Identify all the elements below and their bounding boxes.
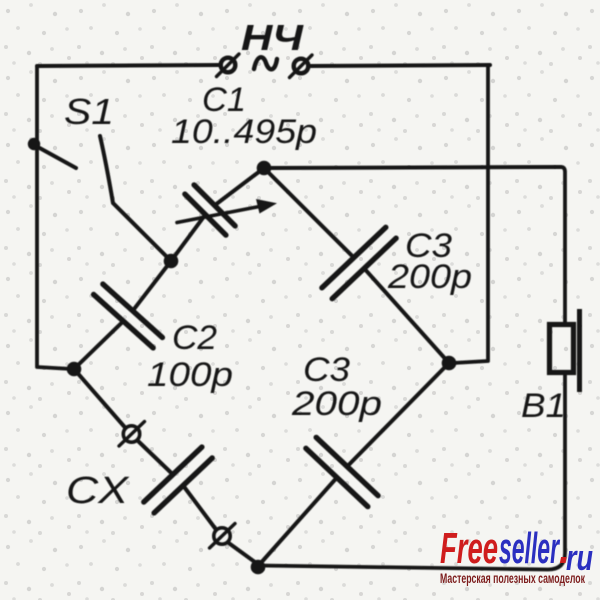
capacitor C3 upper plate (B side) <box>332 238 396 299</box>
wire: from C2 to left node D <box>74 321 123 369</box>
node B (right bridge node) <box>442 356 457 371</box>
svg-text:10..495p: 10..495p <box>171 113 317 151</box>
node C (bottom bridge node) <box>251 560 266 575</box>
wire: from C3 (lower) to right node B <box>347 363 449 467</box>
svg-text:200p: 200p <box>291 385 382 423</box>
wire: from CX lower terminal to bottom node C <box>228 543 259 566</box>
svg-text:C3: C3 <box>303 351 350 389</box>
wire: horizontal from top node A to headphone branch <box>264 167 561 168</box>
node D (left bridge node) <box>67 362 82 377</box>
capacitor CX plate (upper) <box>144 447 202 502</box>
headphone B1 body rectangle <box>550 325 574 373</box>
capacitor C3 lower plate (B side) <box>316 437 378 495</box>
svg-text:Free: Free <box>440 524 498 573</box>
svg-text:200p: 200p <box>387 258 472 296</box>
svg-text:Мастерская полезных самоделок: Мастерская полезных самоделок <box>440 570 586 586</box>
wire: left vertical from top-left corner down to left bridge node <box>37 66 72 369</box>
wire: from B1 down, rounded corner to bottom wire <box>259 373 565 570</box>
svg-text:seller: seller <box>499 524 561 573</box>
wire: from CX plate to CX lower terminal <box>183 486 216 530</box>
capacitor C1 plate (A side) <box>194 185 235 226</box>
switch S1 pivot dot on left wire <box>28 138 40 150</box>
node A (top bridge node) <box>257 161 272 176</box>
capacitor C3 upper plate (A side) <box>322 227 386 287</box>
capacitor C2 plate (D side) <box>94 295 154 348</box>
wire: top horizontal, left part to NCh terminal <box>37 65 219 66</box>
wire: arm from top node A to capacitor C3 (upper) <box>264 168 354 258</box>
symbol: AC sine wave between NCh terminals <box>254 57 277 69</box>
switch S1 lever <box>36 146 76 168</box>
svg-text:НЧ: НЧ <box>241 17 305 58</box>
terminal: NCh left contact circle with slash <box>217 54 240 77</box>
capacitor C1 plate (J side) <box>185 194 226 235</box>
capacitor CX plate (lower) <box>154 458 212 513</box>
wire: from CX upper terminal to CX plate <box>138 441 173 475</box>
wire: top horizontal, right part to right corner <box>310 65 490 66</box>
svg-text:100p: 100p <box>147 356 233 394</box>
wire: right branch vertical down to headphone B1 <box>561 167 565 325</box>
headphone B1 side bar <box>577 309 582 392</box>
wire: switch S1 fixed contact down to junction J <box>100 136 171 261</box>
wire: from C3 (upper) to right node B <box>364 268 449 363</box>
terminal: CX lower circle with slash <box>210 524 236 549</box>
svg-text:S1: S1 <box>64 91 114 132</box>
svg-text:C2: C2 <box>172 319 217 357</box>
terminal: CX upper circle with slash <box>119 422 145 447</box>
capacitor C2 plate (J side) <box>103 284 162 337</box>
wire: from left node D to CX top terminal <box>74 369 126 428</box>
wire: right vertical from top wire down to right bridge node <box>453 65 488 363</box>
capacitor C3 lower plate (C side) <box>306 448 368 506</box>
wire: arm from node A to variable capacitor C1 <box>215 168 264 205</box>
svg-text:B1: B1 <box>521 387 566 425</box>
wire: arm from junction J to capacitor C2 <box>133 261 171 311</box>
node J (S1/C1/C2 junction) <box>164 254 179 269</box>
wire: from C1 to junction J <box>171 215 205 261</box>
arrow: C1 variable adjustment arrow <box>177 199 277 223</box>
wire: arm from bottom node C to capacitor C3 (lower) <box>259 478 337 566</box>
terminal: NCh right contact circle with slash <box>290 55 313 78</box>
svg-text:CX: CX <box>66 470 130 512</box>
logo Freeseller.ru <box>440 524 593 578</box>
